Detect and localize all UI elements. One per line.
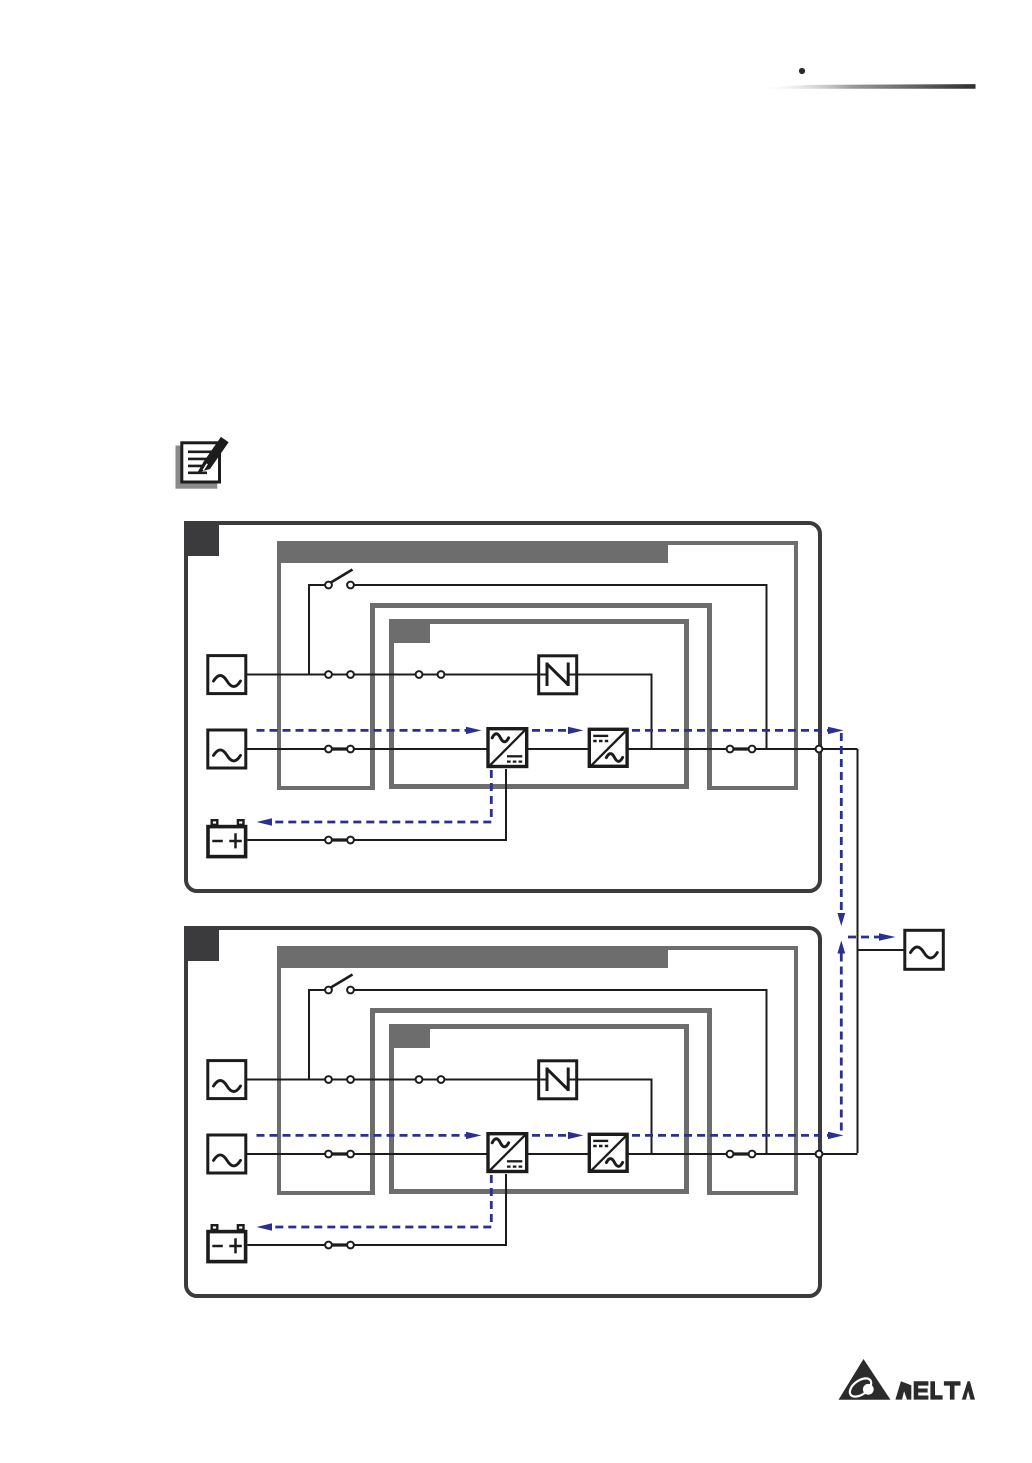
frame R2 interior fill (U1): [375, 606, 707, 792]
contact a2 AC1 line (U2): [347, 1076, 354, 1083]
frame R3 (U1 inverter zone): [392, 622, 687, 787]
inverter (DC/AC) block (U1): [589, 729, 627, 766]
blue flow: converter to inverter (U1): [532, 729, 568, 732]
closed contact segment on battery line (U1): [329, 838, 351, 841]
switch Q1 left terminal (U1): [325, 582, 332, 589]
contact c2 AC2 line (U1): [347, 746, 354, 753]
closed contact segment on AC2 line (U1): [329, 747, 351, 750]
contact a1 AC1 line (U1): [325, 671, 332, 678]
wire: bypass top run after switch, down to output (U1): [354, 585, 767, 749]
battery block (U1): [208, 827, 246, 857]
wire: bypass branch riser and top run (U2): [309, 990, 325, 1080]
load sine symbol: [911, 947, 938, 958]
wire: AC input 1 line to N-box then down to output (U2): [247, 1080, 652, 1155]
switch Q1 right terminal (U2): [347, 987, 354, 994]
note icon shadow: [176, 446, 218, 489]
blue parallel bus: UPS1 down-flow: [840, 733, 843, 913]
blue parallel bus: UPS2 up-flow: [837, 941, 845, 954]
contact e2 battery line (U2): [347, 1242, 354, 1249]
note icon pencil tip highlight: [203, 464, 207, 471]
wire: AC input 2 line through converter and inverter to output (U2): [247, 1153, 858, 1155]
switch Q1 lever (U2): [330, 975, 353, 989]
contact a2 AC1 line (U1): [347, 671, 354, 678]
header bullet dot: [799, 68, 805, 74]
contact d2 output line (U2): [749, 1151, 756, 1158]
contact b2 AC1 line (U2): [438, 1076, 445, 1083]
battery terminal left (U2): [212, 1225, 218, 1230]
converter diagonal (U2): [490, 1135, 526, 1171]
wire: bypass top run after switch, down to output (U2): [354, 990, 767, 1154]
title bar of frame R1 (U2): [277, 946, 668, 968]
blue flow: converter down and left to battery (U1): [272, 770, 491, 822]
inverter sine symbol (U2): [606, 1159, 622, 1167]
frame R1 (U1 power-module zone): [279, 543, 796, 788]
wire: battery feed to converter (U2): [248, 1174, 507, 1245]
battery block (U2): [208, 1232, 246, 1262]
Delta logo triangle: [839, 1359, 891, 1400]
contact b2 AC1 line (U1): [438, 671, 445, 678]
battery minus sign (U2): [212, 1245, 223, 1248]
closed contact segment on AC2 line (U2): [329, 1152, 351, 1155]
closed contact segment on output line (U2): [730, 1152, 752, 1155]
blue flow: inverter to output (U1): [632, 729, 828, 732]
inverter sine symbol (U1): [606, 754, 622, 762]
contact e1 battery line (U2): [325, 1242, 332, 1249]
header gradient rule: [752, 84, 976, 89]
Delta wordmark letter A notch: [966, 1391, 971, 1400]
AC source 1 sine symbol (U2): [214, 1081, 241, 1092]
contact e2 battery line (U1): [347, 837, 354, 844]
inverter DC symbol (U2): [593, 1140, 608, 1142]
Delta wordmark letter A: [962, 1381, 975, 1399]
blue flow: converter down and left to battery (U2): [272, 1175, 491, 1227]
note icon pencil body: [207, 440, 225, 466]
black branch to load: [858, 949, 905, 951]
wire: bypass branch riser and top run (U1): [309, 585, 325, 675]
blue flow: converter to inverter (U2): [532, 1134, 568, 1137]
outer rounded enclosure of U2: [186, 928, 820, 1296]
N-box (neutral/static switch) (U1): [539, 656, 577, 694]
contact c2 AC2 line (U2): [347, 1151, 354, 1158]
inverter diagonal (U2): [591, 1135, 627, 1171]
contact d1 output line (U1): [727, 746, 734, 753]
load block: [905, 930, 944, 969]
AC source 2 block (U2): [208, 1135, 246, 1173]
converter (AC/DC charger) block (U2): [488, 1134, 527, 1172]
contact d2 output line (U1): [749, 746, 756, 753]
blue flow: inverter to output (U2): [632, 1134, 828, 1137]
title bar of frame R1 (U1): [277, 541, 668, 563]
contact b1 AC1 line (U1): [416, 671, 423, 678]
battery plus sign (U2): [229, 1238, 242, 1253]
contact d1 output line (U2): [727, 1151, 734, 1158]
output node (U1): [816, 746, 823, 753]
battery terminal right (U1): [238, 820, 244, 825]
contact c1 AC2 line (U2): [325, 1151, 332, 1158]
wire through N-box (U1): [540, 674, 575, 676]
battery terminal left (U1): [212, 820, 218, 825]
Delta logo swirl ring: [847, 1375, 875, 1401]
blue flow: AC2 to converter (U2): [257, 1134, 467, 1137]
Delta wordmark letter D: [895, 1381, 911, 1399]
wire: AC input 2 line through converter and inverter to output (U1): [247, 748, 858, 750]
frame R2 open-bottom border (U2): [373, 1011, 710, 1196]
contact c1 AC2 line (U1): [325, 746, 332, 753]
contact b1 AC1 line (U2): [416, 1076, 423, 1083]
battery terminal right (U2): [238, 1225, 244, 1230]
AC source 1 block (U2): [208, 1061, 246, 1099]
closed contact segment on battery line (U2): [329, 1243, 351, 1246]
inverter diagonal (U1): [591, 730, 627, 766]
note icon pencil tip: [197, 462, 210, 473]
Delta wordmark letter T: [944, 1381, 961, 1399]
title tab of frame R3 (U2): [389, 1024, 430, 1048]
note icon ruled lines: [188, 452, 214, 473]
output node (U2): [816, 1151, 823, 1158]
note icon pad: [182, 443, 220, 482]
inverter (DC/AC) block (U2): [589, 1134, 627, 1171]
switch Q1 right terminal (U1): [347, 582, 354, 589]
blue arrow to load: [848, 936, 879, 939]
outer rounded enclosure of U1: [186, 523, 820, 891]
AC source 2 sine symbol (U2): [214, 1155, 241, 1166]
corner tab of U2 enclosure: [184, 926, 219, 961]
black output bus: [857, 749, 859, 1153]
converter DC symbol (U1): [507, 755, 522, 757]
UPS unit 1 enclosure group: [184, 521, 858, 891]
AC source 2 block (U1): [208, 730, 246, 768]
frame R2 interior fill (U2): [375, 1011, 707, 1197]
Delta logo swirl dot: [863, 1384, 874, 1395]
battery minus sign (U1): [212, 840, 223, 843]
battery plus sign (U1): [229, 833, 242, 848]
Delta wordmark letter E: [914, 1381, 929, 1399]
wire: AC input 1 line to N-box then down to output (U1): [247, 675, 652, 750]
converter sine symbol (U2): [492, 1139, 508, 1147]
converter sine symbol (U1): [492, 734, 508, 742]
AC source 1 block (U1): [208, 656, 246, 694]
corner tab of U1 enclosure: [184, 521, 219, 556]
frame R2 open-bottom border (U1): [373, 606, 710, 791]
frame R1 (U2 power-module zone): [279, 948, 796, 1193]
Delta wordmark letter D notch: [902, 1391, 907, 1399]
closed contact segment on output line (U1): [730, 747, 752, 750]
converter (AC/DC charger) block (U1): [488, 729, 527, 767]
converter DC symbol (U2): [507, 1160, 522, 1162]
N-box (neutral/static switch) (U2): [539, 1061, 577, 1099]
letter N glyph (U2): [547, 1068, 568, 1092]
contact a1 AC1 line (U2): [325, 1076, 332, 1083]
contact e1 battery line (U1): [325, 837, 332, 844]
switch Q1 left terminal (U2): [325, 987, 332, 994]
wire: battery feed to converter (U1): [248, 769, 507, 840]
AC source 1 sine symbol (U1): [214, 676, 241, 687]
frame R3 (U2 inverter zone): [392, 1027, 687, 1192]
letter N glyph (U1): [547, 663, 568, 687]
inverter DC symbol (U1): [593, 735, 608, 737]
UPS unit 2 enclosure group: [184, 926, 858, 1296]
wire through N-box (U2): [540, 1079, 575, 1081]
blue flow: AC2 to converter (U1): [257, 729, 467, 732]
switch Q1 lever (U1): [330, 570, 353, 584]
Delta wordmark letter L: [930, 1381, 942, 1399]
converter diagonal (U1): [490, 730, 526, 766]
title tab of frame R3 (U1): [389, 619, 430, 643]
AC source 2 sine symbol (U1): [214, 750, 241, 761]
